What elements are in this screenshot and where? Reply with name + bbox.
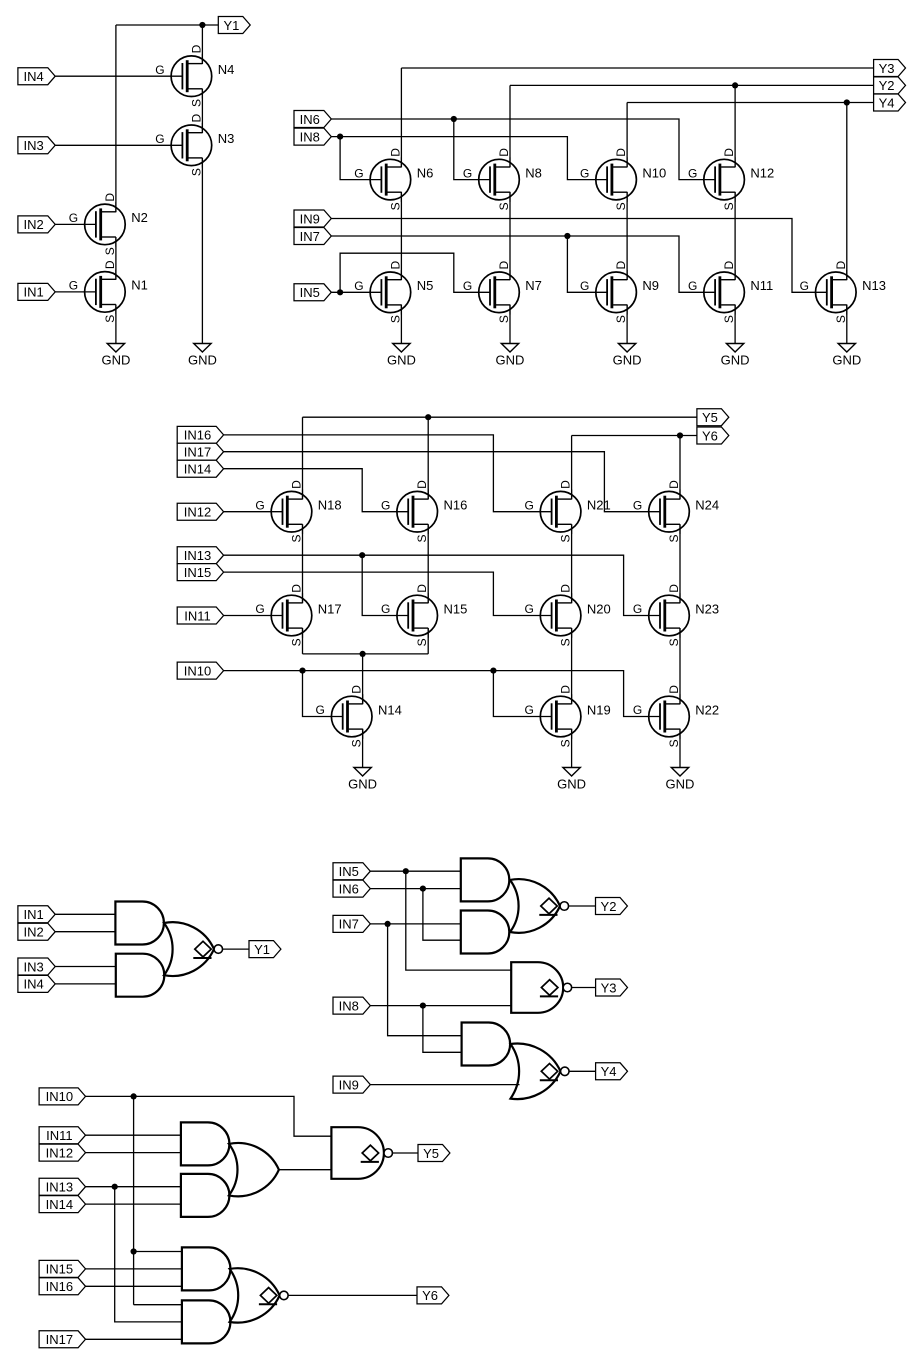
svg-text:IN2: IN2 — [23, 925, 43, 940]
net label IN6 — [294, 111, 331, 128]
wire N23 source to N22 drain — [679, 628, 681, 704]
svg-text:IN7: IN7 — [339, 917, 359, 932]
net label IN13 — [177, 547, 223, 564]
svg-text:IN11: IN11 — [184, 608, 211, 623]
svg-text:N8: N8 — [525, 165, 542, 180]
svg-text:G: G — [580, 279, 589, 293]
wire Y1 rail — [116, 24, 218, 26]
svg-text:IN6: IN6 — [339, 881, 359, 896]
wire N15 source to join rail — [427, 628, 429, 654]
junction IN8 split — [420, 1003, 426, 1009]
wire IN9 to N13 gate — [331, 219, 826, 293]
svg-text:S: S — [415, 535, 429, 543]
ground — [387, 344, 416, 368]
wire IN8 to N6 gate — [340, 137, 381, 180]
wire IN9 to G4 input — [370, 1084, 519, 1086]
net label IN2 — [18, 923, 55, 940]
wire IN11 to AND — [85, 1134, 181, 1136]
svg-text:D: D — [388, 148, 402, 157]
junction IN7/N9 gate — [564, 233, 570, 239]
svg-text:S: S — [722, 202, 736, 210]
net label Y6 — [697, 427, 729, 444]
net label IN8 — [294, 128, 331, 145]
svg-text:S: S — [103, 315, 117, 323]
svg-text:S: S — [189, 99, 203, 107]
net label IN9 — [294, 210, 331, 227]
svg-text:N13: N13 — [862, 278, 886, 293]
svg-text:IN5: IN5 — [300, 285, 320, 300]
net label IN4 — [18, 975, 55, 992]
net label Y2 — [596, 898, 628, 915]
wire N4 source to N3 drain — [201, 89, 203, 133]
svg-text:G: G — [381, 602, 390, 616]
net label IN10 — [39, 1088, 85, 1105]
wire IN3 to N3 gate — [55, 144, 182, 146]
wire IN13 to AND — [85, 1186, 181, 1188]
junction IN13/N15 gate — [359, 552, 365, 558]
svg-text:IN14: IN14 — [46, 1197, 73, 1212]
svg-text:Y2: Y2 — [601, 899, 617, 914]
svg-text:IN4: IN4 — [23, 977, 43, 992]
wire Y2 to N12 drain — [734, 85, 736, 167]
and-gate A9 (IN10,IN13,IN17) — [182, 1300, 231, 1343]
svg-text:S: S — [667, 739, 681, 747]
and-gate A4 (IN7,IN6) — [461, 911, 510, 954]
net label IN1 — [18, 906, 55, 923]
junction Y6/N24 drain — [677, 432, 683, 438]
transistor N21 — [524, 480, 610, 543]
svg-text:IN1: IN1 — [23, 907, 43, 922]
wire N3 source to GND — [201, 158, 203, 344]
net label IN11 — [177, 607, 223, 624]
svg-text:IN10: IN10 — [46, 1089, 73, 1104]
transistor N9 — [580, 261, 659, 324]
wire IN10 to A9 input — [134, 1304, 182, 1306]
transistor N15 — [381, 584, 467, 647]
svg-text:Y6: Y6 — [422, 1288, 438, 1303]
wire IN13 to A9 input — [115, 1187, 182, 1322]
svg-text:N20: N20 — [587, 601, 611, 616]
wire IN1 to AND — [55, 913, 115, 915]
net label IN14 — [177, 460, 223, 477]
svg-text:IN14: IN14 — [184, 462, 211, 477]
transistor N22 — [633, 685, 719, 748]
wire Y3 to N6 drain — [400, 68, 402, 167]
wire rowA source to rowB drain col4 — [679, 524, 681, 603]
svg-text:IN15: IN15 — [184, 565, 211, 580]
transistor N11 — [688, 261, 773, 324]
svg-text:GND: GND — [496, 353, 525, 368]
wire IN17 to AND — [85, 1338, 182, 1340]
svg-text:N5: N5 — [417, 278, 434, 293]
svg-text:Y4: Y4 — [879, 95, 895, 110]
svg-text:G: G — [381, 498, 390, 512]
wire IN8 bus — [331, 137, 607, 180]
wire IN7 to AND A5 input — [388, 924, 462, 1036]
net label Y1 — [218, 17, 250, 34]
svg-text:D: D — [667, 685, 681, 694]
transistor N16 — [381, 480, 467, 543]
wire Y4 to N13 drain — [846, 103, 848, 281]
svg-text:IN16: IN16 — [46, 1279, 73, 1294]
wire rowA source to rowB drain col3 — [571, 524, 573, 603]
svg-text:IN8: IN8 — [339, 998, 359, 1013]
wire IN13 bus — [224, 555, 660, 615]
net label Y4 — [874, 94, 906, 111]
svg-text:G: G — [463, 166, 472, 180]
svg-text:IN4: IN4 — [23, 69, 43, 84]
svg-text:S: S — [614, 202, 628, 210]
junction IN5 split — [403, 868, 409, 874]
wire IN5 to AND — [370, 870, 461, 872]
svg-text:G: G — [155, 132, 164, 146]
svg-text:GND: GND — [101, 353, 130, 368]
wire N2 source to N1 drain — [115, 237, 117, 280]
junction IN13 split — [112, 1184, 118, 1190]
svg-text:N23: N23 — [695, 601, 719, 616]
junction IN5 split — [337, 289, 343, 295]
svg-text:IN17: IN17 — [184, 445, 211, 460]
wire G2 out to Y2 — [569, 905, 596, 907]
svg-text:G: G — [255, 498, 264, 512]
net label IN12 — [177, 503, 223, 520]
wire rowC source to GND — [571, 729, 573, 768]
junction Y2/N12 drain — [732, 82, 738, 88]
wire IN10 to A8 input — [134, 1251, 182, 1253]
svg-text:IN17: IN17 — [46, 1332, 73, 1347]
svg-text:G: G — [255, 602, 264, 616]
svg-text:N1: N1 — [131, 278, 148, 293]
svg-text:N19: N19 — [587, 702, 611, 717]
net label IN5 — [333, 863, 370, 880]
svg-text:IN13: IN13 — [184, 548, 211, 563]
svg-text:N17: N17 — [318, 601, 342, 616]
svg-text:S: S — [189, 168, 203, 176]
wire Y1 to N2 drain — [115, 25, 117, 212]
wire IN12 to N18 gate — [224, 511, 283, 513]
transistor N18 — [255, 480, 341, 543]
net label Y1 — [249, 941, 281, 958]
svg-text:G: G — [633, 703, 642, 717]
svg-text:G: G — [155, 63, 164, 77]
wire row2 source to GND col5 — [846, 305, 848, 344]
wire IN8 to AND A5 input — [423, 1006, 462, 1053]
and-gate A2 (IN3,IN4) — [116, 954, 165, 997]
net label Y5 — [418, 1145, 450, 1162]
net label IN11 — [39, 1127, 85, 1144]
svg-text:D: D — [559, 480, 573, 489]
net label IN14 — [39, 1196, 85, 1213]
svg-text:IN11: IN11 — [46, 1128, 73, 1143]
junction IN10/N14 gate — [299, 668, 305, 674]
net label IN3 — [18, 137, 55, 154]
svg-text:N21: N21 — [587, 498, 611, 513]
nand-gate G3 open-drain (Y3) — [511, 962, 571, 1013]
svg-text:S: S — [722, 315, 736, 323]
transistor N1 — [69, 260, 148, 323]
svg-text:GND: GND — [721, 353, 750, 368]
and-gate A1 (IN1,IN2) — [115, 902, 163, 945]
net label IN7 — [294, 228, 331, 245]
net label Y6 — [417, 1287, 449, 1304]
svg-text:N16: N16 — [444, 498, 468, 513]
wire row1 source to row2 drain col1 — [400, 192, 402, 280]
wire IN3 to AND — [55, 966, 116, 968]
wire N1 source to GND — [115, 305, 117, 344]
wire row1 source to row2 drain col2 — [509, 192, 511, 280]
svg-text:S: S — [667, 535, 681, 543]
net label IN17 — [177, 443, 223, 460]
svg-text:S: S — [614, 315, 628, 323]
net label IN9 — [333, 1076, 370, 1093]
svg-text:D: D — [497, 261, 511, 270]
wire IN14 to N16 gate — [224, 469, 409, 512]
net label IN5 — [294, 284, 331, 301]
junction Y1/N4 drain — [199, 22, 205, 28]
net label IN10 — [177, 662, 223, 679]
svg-text:D: D — [559, 685, 573, 694]
svg-text:N4: N4 — [218, 62, 235, 77]
svg-text:D: D — [415, 480, 429, 489]
wire IN17 to N24 gate — [224, 452, 660, 512]
transistor N8 — [463, 148, 542, 211]
svg-text:N14: N14 — [378, 702, 402, 717]
wire row2 source to GND col1 — [400, 305, 402, 344]
net label Y2 — [874, 77, 906, 94]
svg-text:N6: N6 — [417, 165, 434, 180]
net label IN12 — [39, 1144, 85, 1161]
wire Y6 rail — [572, 435, 697, 437]
svg-text:N15: N15 — [444, 601, 468, 616]
nand-gate G5 open-drain (Y5) — [331, 1127, 392, 1179]
junction IN10/N19 gate — [490, 668, 496, 674]
svg-text:D: D — [614, 261, 628, 270]
svg-text:G: G — [524, 498, 533, 512]
svg-text:D: D — [614, 148, 628, 157]
transistor N6 — [354, 148, 433, 211]
svg-text:G: G — [354, 279, 363, 293]
svg-text:G: G — [688, 279, 697, 293]
junction IN6/N8 gate — [451, 116, 457, 122]
wire IN10 vertical bus — [133, 1096, 135, 1304]
svg-text:D: D — [722, 148, 736, 157]
transistor N13 — [800, 261, 886, 324]
svg-text:S: S — [559, 739, 573, 747]
wire IN5 to N5 gate — [331, 291, 381, 293]
nor-gate G2 open-drain (Y2) — [510, 879, 569, 933]
ground — [557, 768, 586, 792]
wire Y6 to N24 drain — [679, 436, 681, 500]
svg-text:N18: N18 — [318, 498, 342, 513]
transistor N7 — [463, 261, 542, 324]
wire IN15 to N20 gate — [224, 572, 552, 615]
wire G4 out to Y4 — [569, 1070, 596, 1072]
wire G3 out to Y3 — [572, 987, 596, 989]
svg-text:S: S — [667, 638, 681, 646]
svg-text:G: G — [580, 166, 589, 180]
svg-text:S: S — [559, 535, 573, 543]
svg-text:D: D — [290, 480, 304, 489]
svg-text:GND: GND — [832, 353, 861, 368]
svg-text:GND: GND — [666, 777, 695, 792]
svg-text:IN2: IN2 — [23, 217, 43, 232]
ground — [666, 768, 695, 792]
svg-text:Y5: Y5 — [702, 410, 718, 425]
wire G7 out to Y6 — [288, 1294, 417, 1296]
wire row1 source to row2 drain col3 — [626, 192, 628, 280]
wire IN2 to AND — [55, 931, 115, 933]
wire rowA source to rowB drain col2 — [427, 524, 429, 603]
svg-text:GND: GND — [348, 777, 377, 792]
svg-text:D: D — [103, 260, 117, 269]
svg-text:GND: GND — [557, 777, 586, 792]
net label IN1 — [18, 283, 55, 300]
wire IN14 to AND — [85, 1203, 181, 1205]
svg-text:N2: N2 — [131, 210, 148, 225]
svg-text:S: S — [290, 535, 304, 543]
wire Y4 to N10 drain — [626, 103, 628, 168]
svg-text:S: S — [559, 638, 573, 646]
nor-gate G4 open-drain (Y4) — [511, 1044, 570, 1100]
svg-text:N12: N12 — [750, 165, 774, 180]
svg-text:D: D — [667, 480, 681, 489]
svg-text:G: G — [800, 279, 809, 293]
net label IN17 — [39, 1331, 85, 1348]
svg-text:Y3: Y3 — [601, 980, 617, 995]
wire IN13 to N15 gate — [362, 555, 408, 615]
net label Y3 — [874, 60, 906, 77]
junction Y5/N16 drain — [425, 414, 431, 420]
svg-text:S: S — [834, 315, 848, 323]
wire IN7 bus — [331, 236, 715, 292]
svg-text:G: G — [463, 279, 472, 293]
wire IN12 to AND — [85, 1152, 181, 1154]
wire row2 source to GND col4 — [734, 305, 736, 344]
svg-text:D: D — [103, 193, 117, 202]
svg-text:Y1: Y1 — [254, 942, 270, 957]
wire N20 source to N19 drain — [571, 628, 573, 704]
wire row1 source to row2 drain col4 — [734, 192, 736, 280]
transistor N3 — [155, 114, 234, 177]
wire Y3 rail — [401, 67, 873, 69]
net label IN16 — [39, 1278, 85, 1295]
svg-text:N7: N7 — [525, 278, 542, 293]
wire rowA source to rowB drain col1 — [302, 524, 304, 603]
svg-text:S: S — [388, 315, 402, 323]
svg-text:D: D — [722, 261, 736, 270]
nor-gate G1 open-drain (Y1) — [164, 922, 223, 976]
junction join rail/N14 drain — [360, 651, 366, 657]
net label IN6 — [333, 880, 370, 897]
svg-text:D: D — [497, 148, 511, 157]
svg-text:Y4: Y4 — [601, 1064, 617, 1079]
net label IN8 — [333, 997, 370, 1014]
wire Y5 rail — [303, 416, 697, 418]
junction IN10/A8 — [131, 1248, 137, 1254]
wire rowC source to GND — [679, 729, 681, 768]
wire IN4 to AND — [55, 983, 116, 985]
svg-text:IN12: IN12 — [184, 505, 211, 520]
svg-text:Y3: Y3 — [879, 61, 895, 76]
svg-text:N3: N3 — [218, 131, 235, 146]
svg-text:IN1: IN1 — [23, 285, 43, 300]
svg-text:S: S — [497, 315, 511, 323]
svg-text:IN15: IN15 — [46, 1262, 73, 1277]
net label IN2 — [18, 216, 55, 233]
wire IN2 to N2 gate — [55, 223, 96, 225]
transistor N19 — [524, 685, 610, 748]
wire Y5 to N16 drain — [427, 417, 429, 499]
net label Y4 — [596, 1063, 628, 1080]
svg-text:G: G — [633, 602, 642, 616]
wire IN6 to AND B lower input — [423, 889, 461, 941]
ground — [721, 344, 750, 368]
svg-text:GND: GND — [613, 353, 642, 368]
svg-text:D: D — [350, 685, 364, 694]
svg-text:D: D — [388, 261, 402, 270]
wire Y6 to N21 drain — [571, 436, 573, 500]
net label IN16 — [177, 426, 223, 443]
nor-gate G7 open-drain (Y6) — [230, 1268, 289, 1322]
wire G1 out to Y1 — [223, 948, 249, 950]
junction IN7 split — [385, 921, 391, 927]
wire join rail — [303, 653, 429, 655]
net label Y3 — [596, 979, 628, 996]
transistor N23 — [633, 584, 719, 647]
wire row2 source to GND col2 — [509, 305, 511, 344]
transistor N24 — [633, 480, 719, 543]
ground — [613, 344, 642, 368]
or-gate G6 (A6,A7) — [229, 1143, 279, 1196]
wire IN11 to N17 gate — [224, 615, 283, 617]
net label IN4 — [18, 68, 55, 85]
junction IN6 split — [420, 886, 426, 892]
svg-text:D: D — [559, 584, 573, 593]
wire IN6 bus — [331, 119, 715, 180]
svg-text:IN9: IN9 — [339, 1077, 359, 1092]
svg-text:Y6: Y6 — [702, 428, 718, 443]
svg-text:D: D — [290, 584, 304, 593]
net label Y5 — [697, 409, 729, 426]
wire IN15 to AND — [85, 1268, 182, 1270]
transistor N10 — [580, 148, 666, 211]
svg-text:G: G — [524, 703, 533, 717]
transistor N2 — [69, 193, 148, 256]
transistor N14 — [316, 685, 402, 748]
ground — [188, 344, 217, 368]
and-gate A7 (IN13,IN14) — [181, 1174, 230, 1217]
junction Y4/N13 drain — [844, 99, 850, 105]
svg-text:IN3: IN3 — [23, 959, 43, 974]
transistor N4 — [155, 44, 234, 107]
wire IN7 to N9 gate — [567, 236, 607, 292]
svg-text:IN9: IN9 — [300, 211, 320, 226]
svg-text:Y2: Y2 — [879, 78, 895, 93]
svg-text:IN10: IN10 — [184, 663, 211, 678]
svg-text:S: S — [290, 638, 304, 646]
wire Y1 to N4 drain — [201, 25, 203, 64]
svg-text:N24: N24 — [695, 498, 719, 513]
junction IN8/N6 gate — [337, 134, 343, 140]
wire Y2 rail — [510, 84, 874, 86]
and-gate A3 (IN5,IN6) — [461, 858, 510, 901]
svg-text:IN5: IN5 — [339, 864, 359, 879]
svg-text:IN3: IN3 — [23, 138, 43, 153]
wire G6 out to G5 input — [279, 1169, 332, 1171]
wire IN6 to N8 gate — [454, 119, 490, 180]
wire IN10 bus — [224, 671, 660, 717]
net label IN15 — [39, 1260, 85, 1277]
